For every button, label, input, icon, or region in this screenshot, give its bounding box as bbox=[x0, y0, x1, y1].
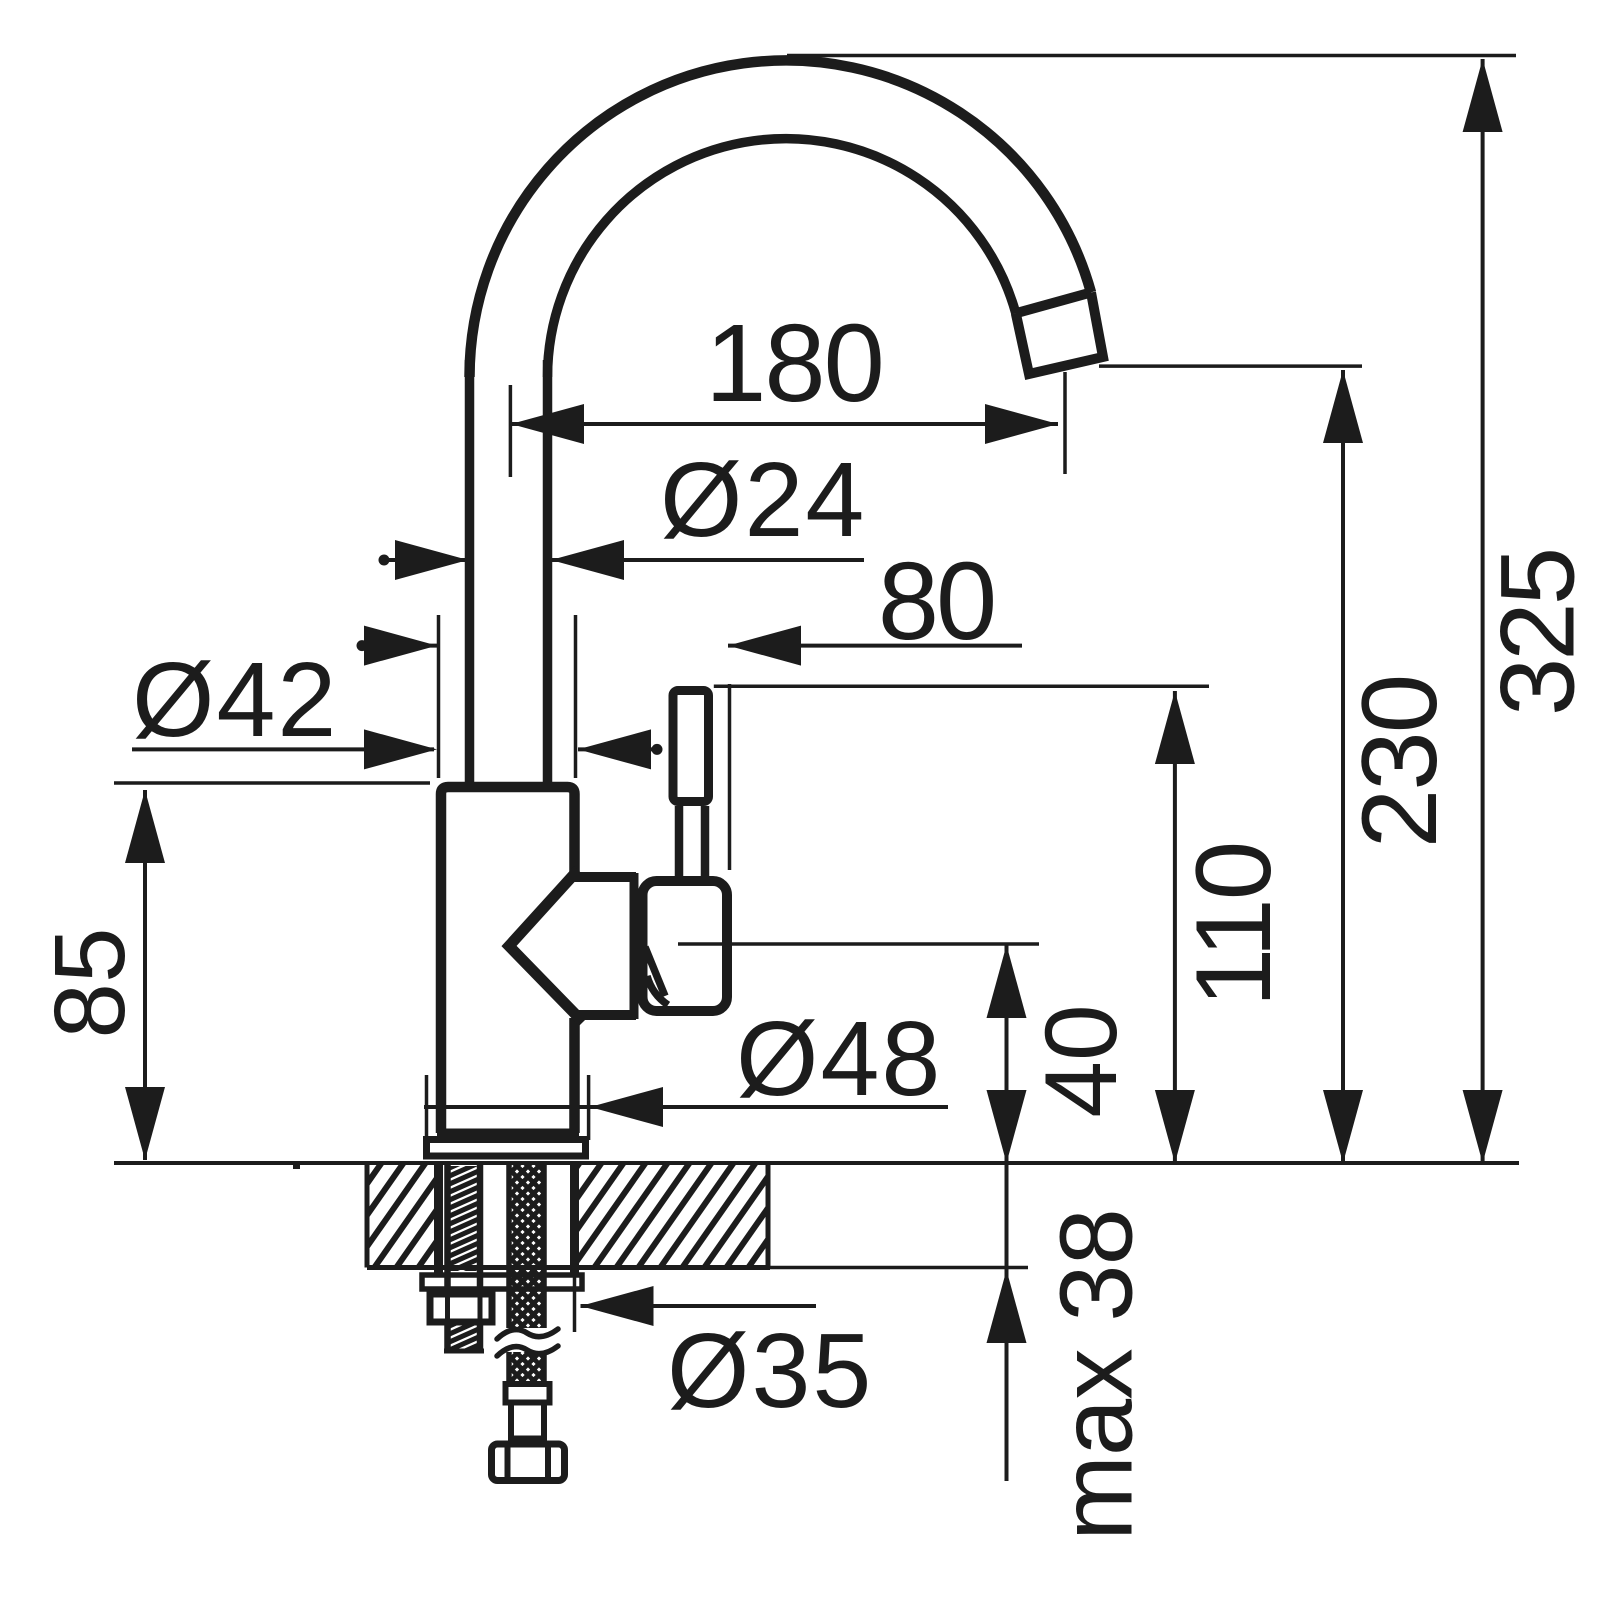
dimension 85 line bbox=[143, 790, 147, 1160]
svg-text:Ø48: Ø48 bbox=[736, 1000, 942, 1118]
hose break upper wave bbox=[497, 1329, 558, 1339]
dimension 110 extension bbox=[714, 685, 1209, 689]
dimension 85 extension top bbox=[114, 781, 430, 785]
svg-text:110: 110 bbox=[1173, 843, 1293, 1008]
dimension 230 extension bbox=[1099, 364, 1362, 368]
dimension 80 extension right bbox=[728, 684, 732, 870]
faucet body bottom edge bbox=[437, 1129, 579, 1138]
countertop hatch bbox=[286, 1163, 844, 1268]
countertop line tick bbox=[293, 1163, 300, 1169]
svg-text:40: 40 bbox=[1024, 1004, 1138, 1117]
mounting hole left wall bbox=[434, 1163, 443, 1274]
dimension D24 line left bbox=[384, 558, 468, 562]
dimension D48 line bbox=[424, 1105, 948, 1109]
svg-text:85: 85 bbox=[34, 927, 146, 1038]
hose tube bbox=[508, 1403, 514, 1445]
swivel wedge diagonals bbox=[509, 870, 583, 1022]
mounting nut facets bbox=[445, 1294, 450, 1322]
swivel wedge top edge bbox=[570, 872, 636, 882]
svg-text:max 38: max 38 bbox=[1039, 1209, 1154, 1541]
dimension D48 extension right bbox=[587, 1075, 591, 1140]
countertop slab left edge bbox=[365, 1163, 370, 1268]
dimension max38 extension (counter bottom) bbox=[770, 1266, 1028, 1270]
dimension 325 line bbox=[1481, 59, 1485, 1163]
dimension 40 line bbox=[1005, 945, 1009, 1163]
mounting nut bbox=[430, 1294, 492, 1322]
dimension D42 extension right bbox=[574, 615, 578, 778]
dimension 180 line bbox=[511, 422, 1058, 426]
threaded stud right edge bbox=[477, 1163, 484, 1352]
dimension 180 extension right bbox=[1063, 372, 1067, 474]
spout outer arc bbox=[469, 60, 1091, 377]
svg-text:180: 180 bbox=[705, 302, 883, 425]
mounting hole right wall bbox=[570, 1163, 579, 1274]
faucet body outline bbox=[441, 787, 575, 1133]
hose end nut facets bbox=[505, 1444, 511, 1480]
hose end nut bbox=[492, 1444, 565, 1481]
swivel wedge right edge bbox=[630, 873, 639, 1019]
dimension D42 line left bbox=[132, 747, 434, 751]
dimension 110 line bbox=[1173, 691, 1177, 1163]
dimension D48 extension left bbox=[425, 1075, 429, 1140]
dimension D35 line bbox=[581, 1304, 817, 1308]
dimension D42 extension left bbox=[437, 615, 441, 778]
threaded stud left edge bbox=[444, 1163, 451, 1352]
dimension max38 line bbox=[1005, 1163, 1009, 1481]
dimension 180 extension left bbox=[509, 385, 513, 477]
svg-text:325: 325 bbox=[1480, 550, 1597, 716]
faucet body right edge lower bbox=[569, 1018, 580, 1133]
dimension D24 line right bbox=[551, 558, 864, 562]
base flange plate bbox=[427, 1140, 586, 1157]
hose ferrule bbox=[506, 1384, 550, 1403]
handle lever joint right edge bbox=[701, 806, 710, 878]
stud thread below nut bbox=[445, 1311, 483, 1368]
handle pivot diagonal bbox=[645, 947, 665, 996]
svg-text:Ø35: Ø35 bbox=[667, 1312, 873, 1430]
threaded stud thread hatch bbox=[445, 1153, 483, 1354]
dimension 230 line bbox=[1341, 370, 1345, 1163]
countertop slab bottom edge bbox=[367, 1265, 770, 1270]
dimension D42 line right bbox=[578, 747, 657, 751]
handle cartridge housing bbox=[643, 881, 728, 1011]
svg-text:Ø42: Ø42 bbox=[132, 641, 338, 759]
spout inner arc bbox=[548, 139, 1016, 377]
dimension 325 extension bbox=[787, 54, 1516, 58]
dimension D35 extension bbox=[573, 1272, 577, 1332]
dimension 80 line right bbox=[728, 644, 1022, 648]
handle lever joint left edge bbox=[675, 806, 684, 878]
dimension 40 extension bbox=[678, 942, 1039, 946]
spout vertical pipe right edge bbox=[543, 360, 553, 787]
dimension 80 line left bbox=[362, 644, 437, 648]
countertop slab right edge bbox=[766, 1163, 771, 1268]
handle lever upper part bbox=[673, 691, 709, 802]
aerator joint crossbar bbox=[1016, 292, 1091, 313]
threaded stud bottom bbox=[444, 1349, 484, 1354]
spout vertical pipe left edge bbox=[465, 360, 475, 787]
supply hose braid lower segment bbox=[509, 1352, 544, 1384]
svg-text:230: 230 bbox=[1339, 676, 1459, 849]
aerator tip outline bbox=[1016, 292, 1103, 374]
swivel wedge bottom edge bbox=[574, 1010, 636, 1020]
svg-text:Ø24: Ø24 bbox=[660, 441, 866, 559]
supply hose braid upper segment bbox=[509, 1163, 544, 1328]
mounting washer plate bbox=[422, 1275, 582, 1289]
hose break lower wave bbox=[497, 1346, 558, 1356]
countertop line bbox=[114, 1161, 1519, 1165]
hose tube step bbox=[508, 1436, 547, 1441]
handle pivot arc bbox=[647, 976, 668, 1005]
